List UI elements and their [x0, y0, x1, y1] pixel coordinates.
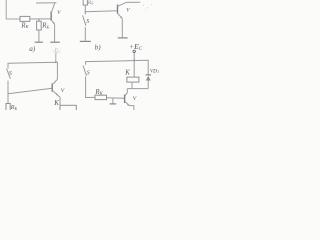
resistor RK (bottom-right), horizontal box	[95, 95, 107, 99]
svg-text:b): b)	[95, 43, 102, 51]
svg-text:RК: RК	[94, 89, 103, 96]
svg-text:V: V	[133, 96, 137, 102]
transistor V (a): collector	[51, 3, 55, 14]
wire: collector joining rail under coil and diode	[127, 88, 148, 90]
ground under Rb (a)	[35, 41, 43, 43]
transistor V (bottom-right): collector and riser	[125, 89, 128, 97]
svg-text:S: S	[87, 71, 90, 77]
svg-text:RК: RК	[20, 22, 29, 29]
svg-text:S: S	[86, 19, 89, 25]
terminal circle +Ec	[133, 50, 135, 52]
ground under emitter (a)	[50, 41, 60, 43]
ground on base line (bottom-right)	[110, 103, 117, 105]
resistor RB (a), vertical box	[37, 21, 42, 30]
transistor V (bottom-left): base bar	[51, 83, 53, 91]
wire: diode to bottom rail	[147, 81, 149, 89]
svg-text:a): a)	[29, 45, 36, 53]
svg-text:RБ: RБ	[87, 0, 94, 6]
relay coil K (bottom-right), box	[127, 77, 139, 82]
wire: down to Rb (bottom-left)	[7, 94, 9, 104]
ground under emitter (b)	[118, 37, 128, 39]
relay coil K (bottom-left), box cut by bottom edge	[60, 105, 76, 111]
wire: switch to ground (b)	[84, 27, 86, 41]
wire: junction down to Rb (a)	[38, 19, 40, 21]
wire: base wire (b)	[85, 11, 117, 12]
transistor V (bottom-left): emitter with arrow	[52, 90, 58, 95]
node: supply junction bottom-left	[55, 61, 57, 63]
svg-text:K: K	[124, 69, 130, 76]
wire: Rk to base bar (a)	[30, 18, 51, 20]
resistor RK (a), horizontal box	[20, 16, 30, 21]
diode VD1: triangle	[146, 76, 151, 81]
wire: emitter out bottom edge	[130, 106, 134, 110]
svg-text:-EC: -EC	[52, 47, 61, 54]
transistor V (bottom-right): emitter with arrow	[125, 101, 130, 105]
wire: top rail bottom-left	[8, 62, 57, 79]
transistor V (a): base bar	[50, 11, 52, 20]
transistor V (a): emitter with arrow	[51, 20, 54, 25]
wire: +Ec terminal drop (bottom-right)	[133, 53, 135, 61]
wire: coil bottom to rail	[131, 82, 133, 89]
node: base junction (a)	[38, 18, 40, 20]
switch S (bottom-right) blade	[83, 66, 87, 76]
wire: -Ec supply drop into bottom-left rail	[55, 54, 57, 62]
svg-text:S: S	[9, 71, 12, 77]
wire: collector top rail (b)	[126, 1, 140, 3]
resistor RB (b), vertical box cut by top edge	[83, 0, 87, 5]
transistor V (b): base bar	[117, 5, 119, 14]
diode VD1: cathode bar	[146, 74, 152, 76]
wire: Rb down to switch (b)	[84, 5, 86, 14]
node: supply junction bottom-right	[133, 59, 135, 61]
switch S (b) blade	[83, 15, 86, 25]
svg-text:V: V	[61, 88, 65, 94]
wire: emitter down to relay K (bottom-left)	[58, 96, 60, 106]
wire: base wire (bottom-left)	[8, 88, 52, 94]
wire: switch down and corner to Rk (bottom-right)	[86, 76, 95, 97]
wire: circuit a left supply drop and feed to Rk	[6, 0, 20, 19]
wire: collector top rail (a)	[36, 2, 56, 4]
ground under switch (b)	[80, 40, 91, 42]
switch S (bottom-left) blade	[7, 69, 11, 79]
terminal circle -Ec (faint)	[55, 52, 57, 54]
wire: coil feed from junction	[133, 60, 135, 77]
wire: Rb to ground (a)	[38, 30, 40, 42]
wire: Rk to base bar (bottom-right)	[107, 97, 125, 100]
svg-text:VD1: VD1	[150, 68, 159, 74]
transistor V (bottom-left): collector	[52, 79, 57, 84]
wire: base-line ground drop (bottom-right)	[112, 98, 114, 103]
transistor V (b): emitter with arrow	[118, 13, 123, 18]
transistor V (bottom-right): base bar	[124, 95, 126, 104]
transistor V (b): collector	[118, 2, 127, 6]
svg-text:K: K	[53, 99, 59, 107]
wire: emitter down to ground (a)	[54, 24, 56, 42]
faint scan specks	[143, 4, 152, 10]
wire: emitter down to ground (b)	[121, 19, 123, 38]
resistor RB (bottom-left), vertical box cut by bottom edge	[6, 104, 10, 112]
wire: switch down to base junction (bottom-left)	[7, 81, 9, 94]
svg-text:RБ: RБ	[10, 104, 18, 110]
wire: top rail bottom-right	[86, 60, 149, 74]
node: base junction (b)	[85, 11, 87, 13]
